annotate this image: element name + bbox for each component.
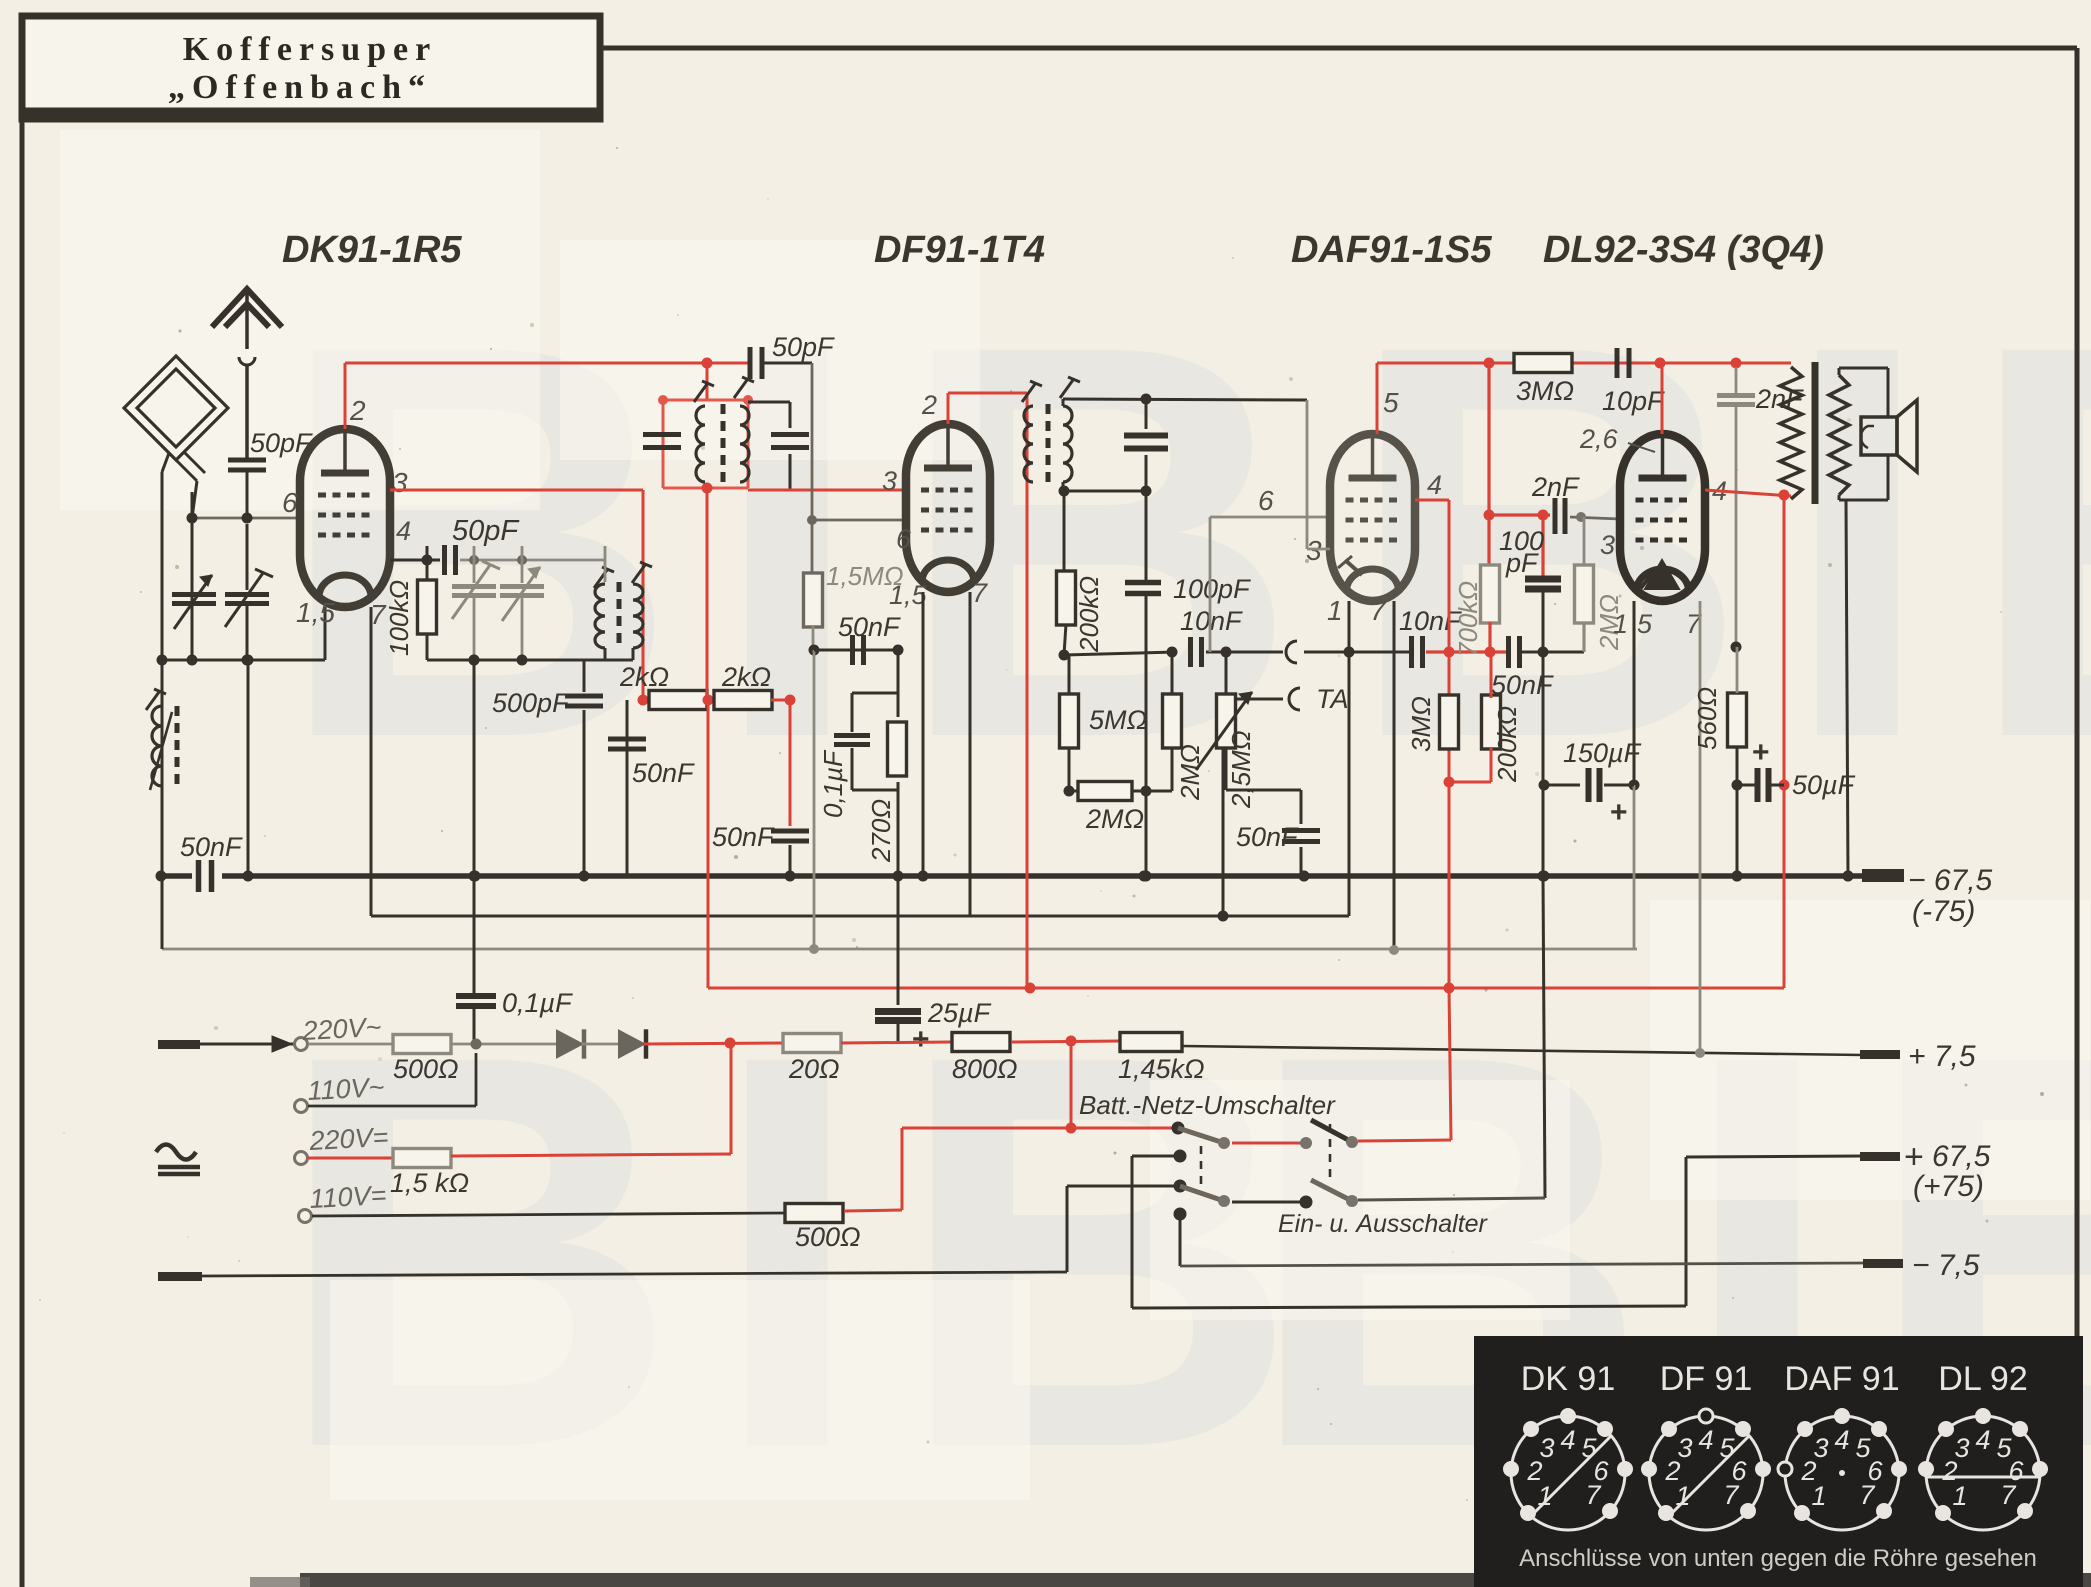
svg-text:1: 1 xyxy=(1613,609,1628,639)
svg-text:4: 4 xyxy=(1975,1425,1990,1455)
svg-text:110V~: 110V~ xyxy=(307,1072,385,1106)
svg-text:1,5: 1,5 xyxy=(296,597,335,628)
svg-text:DL92-3S4 (3Q4): DL92-3S4 (3Q4) xyxy=(1543,229,1824,271)
svg-text:2kΩ: 2kΩ xyxy=(721,662,771,692)
svg-text:1: 1 xyxy=(1327,595,1343,626)
svg-text:1: 1 xyxy=(1811,1481,1826,1511)
svg-text:200kΩ: 200kΩ xyxy=(1074,576,1104,653)
svg-text:− 7,5: − 7,5 xyxy=(1912,1249,1980,1282)
svg-text:500pF: 500pF xyxy=(492,688,570,718)
svg-text:7: 7 xyxy=(2000,1480,2016,1510)
svg-text:6: 6 xyxy=(282,487,298,518)
svg-text:2,6: 2,6 xyxy=(1579,424,1619,454)
svg-text:+: + xyxy=(1610,796,1628,829)
svg-text:560Ω: 560Ω xyxy=(1692,687,1722,750)
svg-text:4: 4 xyxy=(1834,1425,1849,1455)
svg-text:6: 6 xyxy=(896,524,912,554)
svg-text:220V~: 220V~ xyxy=(301,1012,382,1046)
svg-text:DF91-1T4: DF91-1T4 xyxy=(874,229,1045,271)
svg-text:6: 6 xyxy=(1258,485,1274,516)
svg-text:1,5 kΩ: 1,5 kΩ xyxy=(390,1168,469,1198)
svg-text:67,5: 67,5 xyxy=(1932,1140,1991,1173)
svg-text:Batt.-Netz-Umschalter: Batt.-Netz-Umschalter xyxy=(1079,1090,1336,1120)
svg-text:7: 7 xyxy=(1370,595,1387,626)
svg-text:7: 7 xyxy=(1859,1480,1875,1510)
svg-text:50nF: 50nF xyxy=(1236,822,1299,852)
svg-text:Koffersuper: Koffersuper xyxy=(183,31,438,68)
svg-text:10nF: 10nF xyxy=(1180,606,1243,636)
svg-text:pF: pF xyxy=(1505,548,1539,578)
svg-text:800Ω: 800Ω xyxy=(952,1054,1018,1084)
svg-text:0,1µF: 0,1µF xyxy=(818,749,848,818)
svg-text:DAF91-1S5: DAF91-1S5 xyxy=(1291,229,1492,271)
svg-text:7: 7 xyxy=(1585,1480,1601,1510)
svg-text:− 67,5: − 67,5 xyxy=(1908,864,1993,897)
svg-text:110V=: 110V= xyxy=(309,1180,387,1214)
svg-text:2nF: 2nF xyxy=(1531,472,1580,502)
svg-text:25µF: 25µF xyxy=(927,998,992,1028)
svg-text:500Ω: 500Ω xyxy=(393,1054,459,1084)
svg-text:50nF: 50nF xyxy=(712,822,775,852)
svg-text:4: 4 xyxy=(1427,470,1442,500)
svg-text:50nF: 50nF xyxy=(180,832,243,862)
svg-text:50pF: 50pF xyxy=(772,332,835,362)
svg-text:5: 5 xyxy=(1383,387,1399,418)
svg-text:200kΩ: 200kΩ xyxy=(1492,706,1522,783)
svg-text:2: 2 xyxy=(921,390,937,420)
svg-text:150µF: 150µF xyxy=(1563,738,1642,768)
svg-text:100pF: 100pF xyxy=(1173,574,1251,604)
svg-text:+ 7,5: + 7,5 xyxy=(1908,1040,1976,1073)
svg-text:BIB: BIB xyxy=(1345,228,2091,854)
svg-text:700kΩ: 700kΩ xyxy=(1453,581,1483,657)
svg-text:4: 4 xyxy=(1698,1425,1713,1455)
svg-text:3MΩ: 3MΩ xyxy=(1516,376,1574,406)
svg-text:4: 4 xyxy=(396,516,411,546)
svg-text:(-75): (-75) xyxy=(1912,895,1975,928)
svg-text:DK91-1R5: DK91-1R5 xyxy=(282,229,462,271)
svg-text:2MΩ: 2MΩ xyxy=(1175,744,1205,801)
svg-text:(+75): (+75) xyxy=(1913,1170,1984,1203)
svg-text:TA: TA xyxy=(1316,684,1349,714)
svg-text:7: 7 xyxy=(972,578,988,608)
svg-text:1: 1 xyxy=(1952,1481,1967,1511)
svg-text:2,5MΩ: 2,5MΩ xyxy=(1226,730,1256,809)
svg-text:DF 91: DF 91 xyxy=(1660,1360,1753,1398)
svg-text:2kΩ: 2kΩ xyxy=(619,662,669,692)
svg-text:Ein- u. Ausschalter: Ein- u. Ausschalter xyxy=(1278,1210,1489,1238)
svg-text:270Ω: 270Ω xyxy=(866,799,896,863)
svg-text:5: 5 xyxy=(1637,609,1653,639)
svg-text:2MΩ: 2MΩ xyxy=(1085,804,1144,834)
svg-text:3MΩ: 3MΩ xyxy=(1406,696,1436,752)
svg-text:+: + xyxy=(912,1023,930,1056)
svg-text:DL 92: DL 92 xyxy=(1938,1360,2027,1398)
svg-text:500Ω: 500Ω xyxy=(795,1222,861,1252)
svg-text:5MΩ: 5MΩ xyxy=(1089,705,1147,735)
svg-text:1,45kΩ: 1,45kΩ xyxy=(1118,1054,1205,1084)
svg-text:20Ω: 20Ω xyxy=(788,1054,840,1084)
svg-text:+: + xyxy=(1752,736,1770,769)
svg-text:„Offenbach“: „Offenbach“ xyxy=(168,69,432,106)
svg-text:Anschlüsse von unten gegen die: Anschlüsse von unten gegen die Röhre ges… xyxy=(1519,1545,2037,1572)
svg-text:DK 91: DK 91 xyxy=(1521,1360,1616,1398)
svg-text:50nF: 50nF xyxy=(838,612,901,642)
svg-text:4: 4 xyxy=(1560,1425,1575,1455)
svg-text:DAF 91: DAF 91 xyxy=(1784,1360,1899,1398)
svg-text:2: 2 xyxy=(349,395,366,426)
svg-text:100kΩ: 100kΩ xyxy=(384,580,414,656)
svg-text:7: 7 xyxy=(1723,1480,1739,1510)
svg-text:10pF: 10pF xyxy=(1602,386,1665,416)
svg-text:3: 3 xyxy=(392,467,408,498)
svg-text:3: 3 xyxy=(882,466,897,496)
svg-text:220V=: 220V= xyxy=(308,1122,389,1156)
svg-text:50nF: 50nF xyxy=(632,758,695,788)
svg-text:50pF: 50pF xyxy=(452,515,520,547)
svg-text:3: 3 xyxy=(1600,530,1615,560)
svg-text:0,1µF: 0,1µF xyxy=(502,988,573,1018)
